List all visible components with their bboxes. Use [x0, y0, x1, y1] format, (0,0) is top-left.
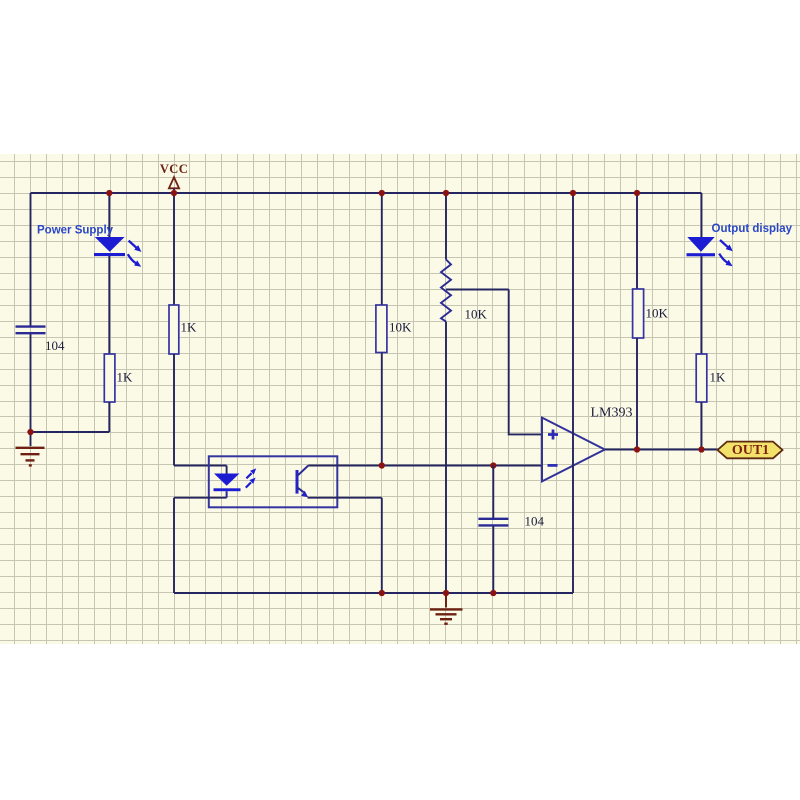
wire left branch down to capacitor [30, 193, 32, 326]
optocoupler U2 box [209, 456, 337, 507]
op-amp U1 LM393 [542, 418, 605, 482]
resistor R4 10K [633, 289, 644, 338]
resistor R2 1K [169, 305, 179, 354]
junction dots ground rail [379, 590, 385, 596]
capacitor C2 104 [478, 519, 508, 526]
wire R3 bottom to collector node [381, 353, 383, 466]
wire op-amp output to port [605, 449, 718, 451]
wire pot bottom to ground rail [445, 322, 447, 593]
LED D1 emission arrows [128, 241, 137, 264]
wire ground stub [30, 432, 32, 446]
junction dots output net [634, 446, 640, 452]
wire cap column [492, 466, 494, 519]
wire opto LED anode horizontal [174, 465, 227, 467]
resistor R5 1K [696, 354, 707, 402]
node collector junction [379, 462, 385, 468]
wire VCC column to R2 [173, 189, 175, 306]
potentiometer RV1 10K zigzag [441, 260, 451, 322]
wire C2 bottom to ground rail [492, 526, 494, 593]
svg-text:10K: 10K [465, 307, 488, 322]
wire opto anode drop [226, 466, 228, 474]
wire feedback 10K column [636, 193, 638, 289]
svg-text:Power Supply: Power Supply [37, 225, 114, 237]
ground GND bottom [430, 609, 463, 623]
resistor R1 1K [104, 354, 115, 402]
wire supply crossing column [572, 193, 574, 593]
resistor R3 10K [376, 305, 387, 353]
svg-text:1K: 1K [117, 370, 134, 385]
svg-text:104: 104 [525, 514, 545, 529]
wire ground stub bottom [445, 593, 447, 608]
LED D2 emission arrows [719, 240, 728, 263]
wire pot wiper tap [446, 289, 509, 291]
wire collector to inverting input [308, 465, 542, 467]
svg-text:1K: 1K [181, 320, 198, 335]
node cap junction [490, 462, 496, 468]
wire R4 bottom to output [636, 338, 638, 450]
wire capacitor to ground node [30, 334, 32, 432]
wire VCC top rail [31, 192, 702, 194]
opto LED [214, 474, 241, 498]
wire output display branch [701, 193, 703, 238]
LED D1 power supply indicator [94, 237, 125, 256]
wire opto cathode column down [173, 498, 175, 593]
svg-text:10K: 10K [646, 306, 669, 321]
svg-text:LM393: LM393 [591, 406, 633, 421]
wire ground rail bottom [174, 592, 573, 594]
svg-text:10K: 10K [389, 320, 412, 335]
wire wiper down to non-inverting input [509, 290, 542, 435]
sheet grid [0, 154, 800, 644]
wire power LED anode [108, 193, 110, 238]
wire R1 bottom to ground node [108, 402, 110, 432]
wire 10K pullup column [381, 193, 383, 305]
wire ground node horizontal [31, 431, 110, 433]
svg-text:Output display: Output display [712, 223, 793, 235]
opto coupling arrows [246, 473, 252, 487]
wire opto cathode horizontal [174, 497, 227, 499]
power port VCC [160, 162, 188, 188]
wire pot column top [445, 193, 447, 260]
opto phototransistor Q1 [296, 466, 309, 498]
svg-text:OUT1: OUT1 [732, 443, 769, 458]
ground GND left [16, 448, 45, 466]
wire emitter horizontal [308, 497, 382, 499]
port OUT1 [718, 442, 783, 459]
wire LED cathode to R1 [108, 256, 110, 354]
node junction dot (ground node) [27, 429, 33, 435]
svg-text:1K: 1K [710, 370, 727, 385]
capacitor C1 104 [16, 327, 46, 334]
wire emitter down to ground rail [381, 498, 383, 593]
schematic sheet background [0, 154, 800, 644]
LED D2 output display [687, 237, 716, 256]
wire R2 bottom to opto input [173, 354, 175, 466]
wire R5 bottom to output [701, 402, 703, 450]
svg-text:104: 104 [45, 338, 65, 353]
junction dots top rail [106, 190, 112, 196]
svg-text:VCC: VCC [160, 162, 188, 176]
wire D2 cathode to R5 [701, 256, 703, 354]
